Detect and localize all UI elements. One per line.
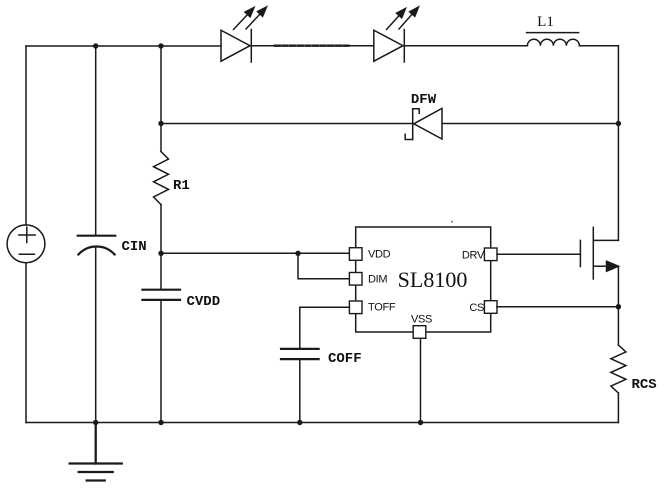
- wire CS node to RCS: [617, 307, 619, 345]
- IC U1 SL8100 body: [356, 227, 491, 332]
- resistor R1: [154, 152, 169, 205]
- wire x161 top to DFW node: [160, 46, 162, 124]
- svg-text:CS: CS: [469, 302, 484, 314]
- LED D1 light arrows: [234, 7, 267, 30]
- capacitor CIN (polarized): [78, 236, 116, 255]
- wire x95.7 top to CIN: [95, 46, 97, 235]
- capacitor COFF: [281, 349, 319, 359]
- LED D1: [221, 30, 251, 63]
- node COFF bottom junction: [297, 420, 302, 425]
- node top-left junction: [93, 43, 98, 48]
- node VDD wire junction: [158, 251, 163, 256]
- wire CVDD to bottom rail: [160, 300, 162, 423]
- svg-text:CVDD: CVDD: [187, 294, 221, 310]
- node ground junction: [93, 420, 98, 425]
- transistor Q1 (NMOS): [580, 227, 618, 279]
- wire right rail to drain: [617, 124, 619, 241]
- wire LED2 cathode to L1: [404, 45, 527, 47]
- wire LED1 cathode solid: [251, 45, 275, 47]
- wire RCS to bottom rail: [617, 393, 619, 423]
- wire VSS to bottom rail: [420, 338, 422, 422]
- LED D2: [374, 30, 405, 63]
- ground: [70, 423, 122, 481]
- pin VSS: [413, 326, 426, 339]
- LED D2 light arrows: [387, 7, 419, 30]
- svg-text:CIN: CIN: [122, 239, 147, 255]
- wire L1 to right rail: [579, 45, 618, 47]
- node top x161 junction: [158, 43, 163, 48]
- wire DIM branch: [298, 253, 349, 278]
- pin TOFF: [349, 301, 362, 314]
- pin DRV: [484, 248, 497, 261]
- wire COFF to bottom rail: [299, 359, 301, 422]
- svg-text:DFW: DFW: [411, 92, 437, 108]
- wire VDD node to IC: [161, 252, 349, 254]
- svg-text:SL8100: SL8100: [398, 267, 468, 292]
- wire dashed (more LEDs): [275, 45, 349, 47]
- wire CS row: [497, 306, 618, 308]
- capacitor CVDD: [142, 290, 180, 300]
- wire DRV to gate: [497, 253, 580, 255]
- node CS junction: [616, 304, 621, 309]
- svg-text:R1: R1: [173, 178, 190, 194]
- wire source down to CS node: [617, 266, 619, 307]
- pin DIM: [349, 273, 362, 286]
- wire CIN bottom: [95, 248, 97, 423]
- diode DFW (schottky): [405, 108, 442, 139]
- resistor RCS: [611, 345, 626, 393]
- pin CS: [484, 301, 497, 314]
- pin VDD: [349, 248, 362, 261]
- wire top rail left: [26, 45, 221, 47]
- svg-text:COFF: COFF: [328, 351, 362, 367]
- wire right rail top: [617, 46, 619, 124]
- wire R1 to VDD node: [160, 205, 162, 253]
- node CVDD bottom junction: [158, 420, 163, 425]
- svg-text:TOFF: TOFF: [368, 302, 396, 314]
- svg-text:VSS: VSS: [411, 314, 432, 326]
- voltage source V1: [7, 225, 45, 263]
- wire node to CVDD: [160, 253, 162, 290]
- wire DFW node to R1: [160, 124, 162, 152]
- svg-text:DRV: DRV: [462, 249, 485, 261]
- wire left vertical below source: [25, 263, 27, 423]
- svg-text:L1: L1: [537, 14, 554, 30]
- wire TOFF to COFF: [300, 307, 350, 349]
- wire DFW row right: [442, 123, 618, 125]
- node VSS bottom junction: [418, 420, 423, 425]
- inductor L1: [527, 33, 580, 46]
- wire DFW row left: [161, 123, 413, 125]
- svg-text:DIM: DIM: [368, 274, 387, 286]
- wire bottom rail: [26, 422, 618, 424]
- node DFW left junction: [158, 121, 163, 126]
- svg-text:VDD: VDD: [368, 249, 391, 261]
- node DIM branch junction: [295, 251, 300, 256]
- wire to LED2 anode: [349, 45, 374, 47]
- node DFW right junction: [616, 121, 621, 126]
- speck artifact: [451, 221, 453, 223]
- svg-text:RCS: RCS: [632, 377, 657, 393]
- wire left vertical above source: [25, 46, 27, 225]
